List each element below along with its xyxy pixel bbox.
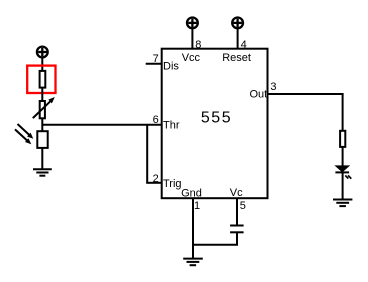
- svg-text:Thr: Thr: [163, 119, 180, 131]
- svg-text:2: 2: [153, 173, 159, 185]
- wire Dis pin 7 stub: [146, 63, 162, 65]
- LED D1 triangle: [336, 166, 349, 172]
- ground bottom: [183, 259, 203, 266]
- svg-text:5: 5: [240, 200, 246, 212]
- svg-text:Gnd: Gnd: [181, 187, 202, 199]
- svg-text:Vc: Vc: [230, 187, 243, 199]
- svg-text:555: 555: [201, 110, 232, 127]
- light arrow 1 into R3: [18, 124, 34, 139]
- wire Out down to resistor R4: [342, 94, 344, 131]
- wire Vc pin 5 down: [236, 198, 238, 225]
- wire Reset pin 4: [237, 28, 239, 49]
- ground right: [333, 200, 352, 207]
- svg-text:6: 6: [153, 114, 159, 126]
- ground left: [33, 169, 52, 175]
- svg-text:1: 1: [194, 200, 200, 212]
- svg-text:7: 7: [153, 53, 159, 65]
- light arrow 2 into R3: [15, 129, 31, 144]
- svg-text:4: 4: [241, 39, 247, 51]
- wire Vcc pin 8: [191, 28, 193, 49]
- svg-text:Out: Out: [249, 89, 267, 101]
- svg-text:Dis: Dis: [163, 60, 179, 72]
- potentiometer R2: [33, 97, 55, 118]
- wire capacitor to Gnd net: [192, 244, 238, 246]
- LED emission mark 2: [348, 175, 351, 178]
- power symbol V+ Reset: [232, 18, 243, 29]
- power symbol V+ Vcc: [187, 18, 198, 29]
- wire Thr-Trig vertical: [146, 125, 148, 183]
- wire R4 to LED: [342, 147, 344, 166]
- wire LDR to ground: [41, 148, 43, 169]
- svg-text:Vcc: Vcc: [182, 52, 201, 64]
- wire Out pin 3: [268, 93, 344, 95]
- power symbol V+ left: [37, 47, 48, 58]
- IC U1 555 body: [162, 49, 268, 199]
- wire junction to Thr pin 6: [42, 124, 161, 126]
- LED emission mark 1: [345, 175, 348, 178]
- LED cathode bar: [335, 171, 349, 173]
- wire Trig pin 2: [146, 182, 162, 184]
- wire power to R1: [41, 57, 43, 70]
- photoresistor R3: [37, 131, 47, 148]
- svg-text:Reset: Reset: [222, 52, 251, 64]
- svg-text:3: 3: [270, 81, 276, 93]
- resistor R4: [340, 131, 345, 147]
- wire Gnd pin 1 down: [192, 198, 194, 258]
- svg-text:Trig: Trig: [163, 178, 182, 190]
- resistor R1: [40, 71, 46, 88]
- wire LED to ground: [342, 172, 344, 199]
- wire R2 to LDR with junction: [41, 118, 43, 131]
- wire R1 to R2: [41, 88, 43, 101]
- selection box (red): [27, 66, 55, 93]
- capacitor C1: [230, 226, 244, 233]
- svg-text:8: 8: [195, 39, 201, 51]
- wire capacitor bottom: [236, 232, 238, 244]
